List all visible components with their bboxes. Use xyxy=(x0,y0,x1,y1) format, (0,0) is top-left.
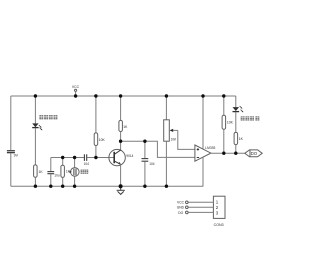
wire left branch (battery) xyxy=(10,96,12,150)
wire C3 branch xyxy=(144,141,146,158)
junction collector wire at C3 xyxy=(143,140,146,143)
wire LED1 branch from top rail xyxy=(34,96,36,123)
wire op-amp V+ pin to top rail xyxy=(202,96,204,149)
svg-text:CON3: CON3 xyxy=(214,223,224,227)
svg-text:104: 104 xyxy=(149,162,155,166)
junction bottom rail at R1 xyxy=(34,185,37,188)
wire top rail VCC xyxy=(11,95,236,97)
wire C2 to base node xyxy=(87,157,114,159)
wire microphone to bottom rail xyxy=(74,176,76,186)
resistor R1 1K xyxy=(34,165,44,177)
svg-text:1K: 1K xyxy=(239,137,244,141)
wire R6 to output line xyxy=(235,145,237,154)
svg-text:1K: 1K xyxy=(39,170,44,174)
wire R3 branch from top rail xyxy=(95,96,97,133)
wire R5 to output line xyxy=(223,129,225,153)
junction top rail at VCC xyxy=(74,94,77,97)
wire CON3 pin3 DO xyxy=(178,211,213,215)
wire R2 to bottom rail xyxy=(62,177,64,186)
junction bottom rail at emitter/ground xyxy=(119,184,123,188)
svg-text:LM393: LM393 xyxy=(205,146,215,150)
wire battery negative to bottom rail xyxy=(10,153,12,186)
LED D1 power indicator xyxy=(32,123,42,130)
wire potentiometer top from rail xyxy=(165,96,167,120)
capacitor C3 104 xyxy=(142,159,155,166)
LED D2 switch indicator xyxy=(233,106,244,112)
wire CON3 pin1 VCC xyxy=(177,201,213,205)
transistor Q1 9014 NPN xyxy=(109,149,134,165)
wire bottom rail GND xyxy=(11,185,204,187)
power port VCC xyxy=(72,85,80,96)
wire R1 to bottom rail xyxy=(34,177,36,186)
capacitor C1 10u xyxy=(47,172,60,178)
junction bottom rail at C3 xyxy=(143,185,146,188)
junction collector node at R4 xyxy=(119,140,122,143)
wire op-amp output xyxy=(211,152,245,154)
wire C1 to bottom rail xyxy=(50,174,52,186)
resistor R6 1K xyxy=(234,132,243,144)
resistor R2 1K xyxy=(61,165,71,177)
junction bottom rail at pot xyxy=(165,185,168,188)
junction bottom rail at microphone xyxy=(73,185,76,188)
wire C3 to bottom rail xyxy=(144,162,146,187)
svg-text:9014: 9014 xyxy=(126,154,133,158)
junction mic bus at microphone xyxy=(73,156,76,159)
wire R3 to mic bus xyxy=(95,146,97,158)
wire pot bottom to bottom rail xyxy=(165,141,167,186)
label 电源指示 (power indicator) xyxy=(39,115,57,119)
svg-text:DO: DO xyxy=(178,211,183,215)
junction top rail at R4 xyxy=(119,94,122,97)
svg-text:1K: 1K xyxy=(123,125,128,129)
wire R4 to collector node xyxy=(120,132,122,151)
junction mic bus at R2 xyxy=(61,156,64,159)
resistor R5 10K pull-up xyxy=(222,115,234,129)
junction bottom rail at R2 xyxy=(61,185,64,188)
wire capacitor C1 branch xyxy=(50,158,52,172)
svg-text:GND: GND xyxy=(177,206,185,210)
ground symbol xyxy=(117,186,125,194)
wire R2 branch xyxy=(62,158,64,166)
wire op-amp V- pin to bottom rail xyxy=(202,157,204,186)
wire collector node to comparator xyxy=(121,141,195,157)
wire R5 branch from top rail xyxy=(223,96,225,115)
svg-text:VCC: VCC xyxy=(72,85,80,89)
wire CON3 pin2 GND xyxy=(177,206,214,210)
wire emitter to bottom rail xyxy=(120,164,122,186)
svg-text:104: 104 xyxy=(84,162,90,166)
resistor R4 1K xyxy=(119,120,128,131)
wire LED1 to R1 xyxy=(34,128,36,165)
wire mic signal bus xyxy=(51,157,84,159)
wire R4 branch from top rail xyxy=(120,96,122,120)
svg-text:VCC: VCC xyxy=(177,201,185,205)
junction top rail at pot xyxy=(165,94,168,97)
junction output line at R5 xyxy=(222,152,225,155)
op-amp U1 LM393 xyxy=(195,145,216,161)
junction top rail at LED1 xyxy=(34,94,37,97)
capacitor C2 104 coupling xyxy=(84,154,90,166)
svg-text:10K: 10K xyxy=(171,138,178,142)
battery BT1 9V xyxy=(7,151,19,158)
svg-text:9V: 9V xyxy=(14,154,19,158)
junction top rail at R3 xyxy=(94,94,97,97)
port DO output xyxy=(245,150,262,157)
label 开关指示 (switch indicator) xyxy=(241,116,260,120)
label 话筒 (microphone) xyxy=(81,170,89,174)
connector CON3 xyxy=(213,196,225,227)
junction top rail at op-amp V+ xyxy=(201,94,204,97)
wire LED2 to R6 xyxy=(235,112,237,132)
svg-text:DO: DO xyxy=(251,151,258,156)
junction top rail at R5 xyxy=(222,94,225,97)
junction output line at R6 xyxy=(234,152,237,155)
svg-text:10u: 10u xyxy=(54,173,60,177)
wire microphone branch xyxy=(74,158,76,168)
junction mic bus at R3 xyxy=(94,156,97,159)
potentiometer RP1 10K xyxy=(164,120,178,142)
svg-text:10K: 10K xyxy=(227,121,234,125)
resistor R3 10K xyxy=(94,133,105,146)
wire top rail right end down to LED2 xyxy=(235,96,237,107)
microphone MK1 electret xyxy=(69,168,79,177)
junction bottom rail at C1 xyxy=(49,185,52,188)
svg-text:10K: 10K xyxy=(99,138,106,142)
wire pot wiper to comparator plus input xyxy=(178,130,195,149)
